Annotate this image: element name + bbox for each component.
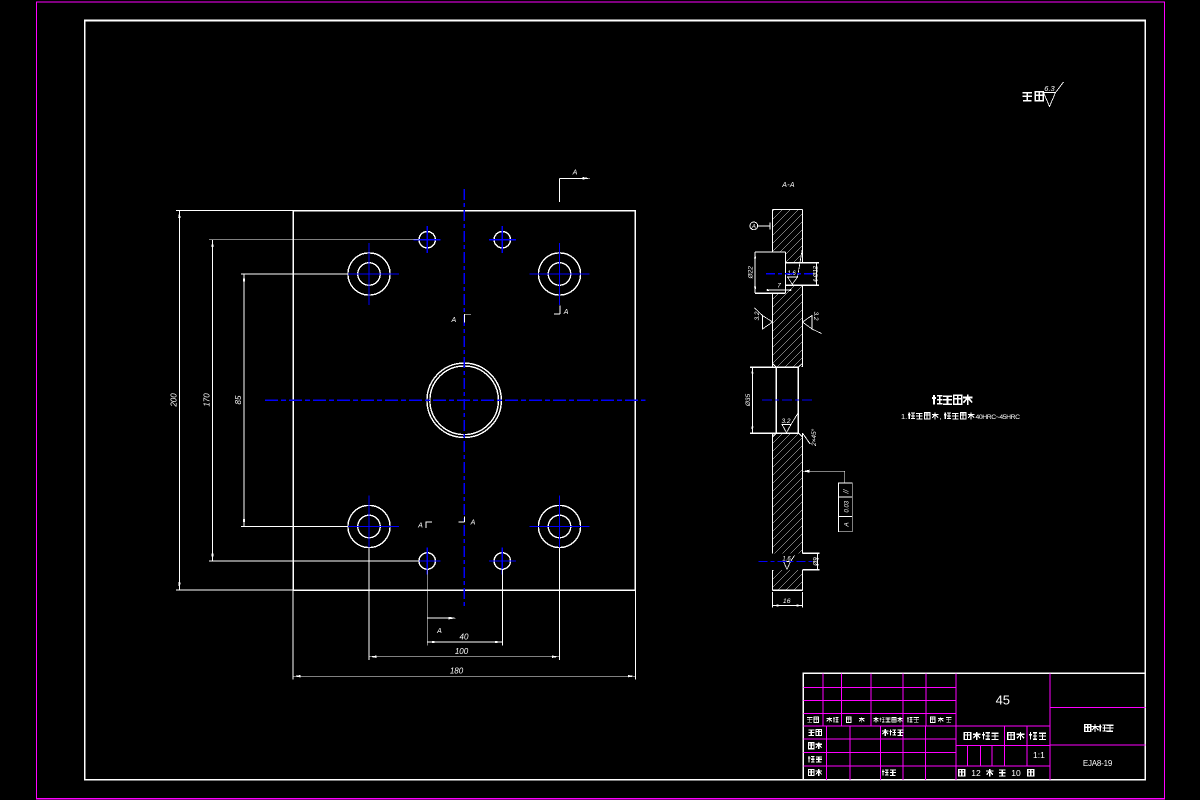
svg-text:2×45°: 2×45°	[810, 428, 818, 447]
svg-text:Ø9: Ø9	[812, 557, 819, 567]
svg-text:EJA8-19: EJA8-19	[1083, 759, 1113, 768]
svg-text:A: A	[450, 317, 456, 324]
svg-text:A-A: A-A	[781, 182, 795, 189]
svg-text:3.2: 3.2	[754, 311, 761, 320]
svg-text:7: 7	[777, 283, 781, 290]
svg-text:170: 170	[203, 393, 212, 407]
svg-text:A: A	[417, 523, 423, 530]
svg-text:85: 85	[234, 395, 243, 404]
svg-text:Ø22: Ø22	[748, 266, 755, 280]
svg-text:0.03: 0.03	[844, 500, 850, 512]
svg-text:Ø35: Ø35	[745, 393, 752, 407]
svg-text:A: A	[751, 224, 756, 231]
svg-text:3.2: 3.2	[781, 418, 790, 425]
svg-text:,: ,	[940, 412, 942, 421]
svg-text:A: A	[572, 170, 578, 177]
svg-text:180: 180	[450, 667, 464, 676]
svg-text:40HRC~45HRC: 40HRC~45HRC	[976, 414, 1021, 421]
svg-text:45: 45	[996, 693, 1010, 708]
svg-text:16: 16	[783, 598, 791, 605]
svg-text:40: 40	[460, 632, 469, 641]
svg-text:4-Ø12: 4-Ø12	[814, 265, 820, 282]
svg-text:A: A	[470, 519, 476, 526]
svg-text:100: 100	[455, 647, 469, 656]
svg-text:3.2: 3.2	[812, 311, 819, 320]
svg-text:A: A	[436, 628, 442, 635]
svg-text:A: A	[843, 522, 850, 527]
svg-text:10: 10	[1011, 768, 1021, 778]
svg-text:A: A	[563, 309, 569, 316]
svg-text:1:1: 1:1	[1033, 750, 1045, 760]
svg-text:12: 12	[971, 768, 981, 778]
svg-text:1.: 1.	[901, 412, 907, 421]
svg-text:200: 200	[170, 393, 179, 408]
svg-text:6.3: 6.3	[1044, 84, 1055, 93]
